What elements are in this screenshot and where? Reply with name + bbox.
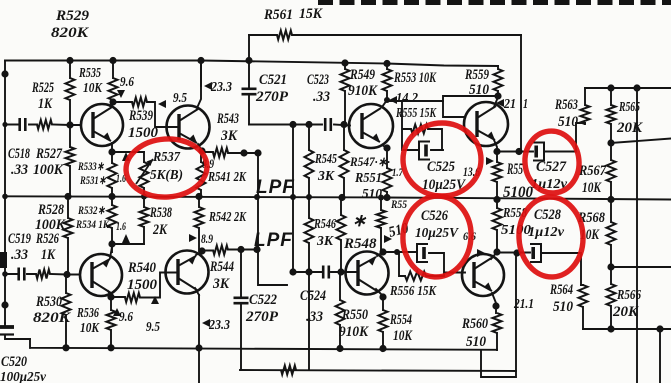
arrow testpoint 14.2: [389, 96, 397, 104]
arrow testpoint 21.1: [496, 99, 504, 107]
junction x=199 ground rail: [195, 344, 202, 351]
resistor R561 15K zigzag: [277, 31, 292, 40]
junction x=637 y=88: [633, 84, 640, 91]
junction Q6 collector node: [493, 248, 500, 255]
svg-text:R567: R567: [578, 163, 606, 179]
junction x=112 y=196: [108, 193, 115, 200]
resistor R547*: [340, 150, 349, 178]
svg-text:C525: C525: [427, 159, 455, 175]
resistor R553 10K: [383, 69, 392, 91]
svg-text:R532∗: R532∗: [77, 203, 105, 217]
resistor R525 1K: [66, 78, 75, 100]
arrow testpoint 23.3 upper: [204, 82, 212, 90]
resistor R526 1K horizontal: [36, 270, 50, 279]
svg-text:3K: 3K: [212, 276, 230, 292]
wire R557 column: [496, 152, 498, 200]
junction x=309 y=196: [306, 194, 312, 200]
junction Q1b base node: [63, 271, 70, 278]
svg-text:R546: R546: [313, 217, 336, 232]
resistor R539 1500: [132, 98, 147, 107]
svg-text:C519: C519: [8, 231, 31, 247]
svg-text:3K: 3K: [317, 169, 336, 184]
red circle around R537 5K(B): [124, 136, 209, 200]
wire column x=68 lower: [67, 197, 69, 275]
wire column x=113 upper: [112, 61, 114, 103]
svg-text:21: 21: [503, 96, 516, 111]
svg-text:100μ25v: 100μ25v: [0, 369, 47, 383]
wire top supply rail y=60: [5, 61, 498, 67]
svg-text:R553 10K: R553 10K: [393, 70, 436, 86]
capacitor C528 body: [530, 244, 541, 262]
junction x=340 ground rail: [336, 345, 343, 352]
resistor R545 3K: [305, 150, 314, 178]
wire C528 row: [497, 253, 581, 286]
wire left edge vertical x=5 lower: [4, 197, 6, 275]
resistor series input upper (R525 row): [37, 120, 52, 129]
wire column x=637: [636, 88, 638, 383]
wire Q1 collector lead: [110, 102, 113, 106]
wire R561 top link y=35: [249, 34, 521, 36]
resistor R554 10K: [379, 310, 388, 332]
svg-text:8.9: 8.9: [201, 231, 213, 246]
transistor Q5: [346, 252, 389, 295]
svg-text:R541 2K: R541 2K: [207, 170, 247, 185]
svg-text:LPF: LPF: [256, 177, 295, 198]
svg-text:C520: C520: [1, 354, 27, 370]
svg-text:1μ12v: 1μ12v: [528, 225, 565, 240]
svg-text:R528: R528: [37, 202, 64, 218]
wire column x=66 to ground rail: [65, 275, 67, 348]
resistor R567 10K: [607, 160, 616, 182]
svg-text:R549: R549: [349, 67, 375, 83]
wire column x=112 lower: [112, 197, 144, 253]
svg-text:23.3: 23.3: [210, 80, 232, 95]
junction x=66 ground rail: [62, 344, 69, 351]
wire R550 column: [339, 272, 341, 349]
wire right rail y=143: [611, 139, 671, 144]
svg-text:100K: 100K: [35, 217, 66, 233]
wire Q1 base row y=124: [5, 124, 81, 127]
wire R551 column: [386, 148, 388, 198]
wire Q4 emitter lead: [494, 140, 497, 152]
wire emitter row to C527: [497, 123, 585, 152]
junction x=497 y=199: [493, 196, 500, 203]
svg-text:1: 1: [523, 96, 528, 111]
wire left edge vertical x=5 upper: [4, 61, 6, 197]
junction x=517 y=253: [513, 249, 520, 256]
wire C522 column: [240, 250, 242, 371]
capacitor C526 body: [417, 244, 428, 262]
junction Q3 collector node: [384, 97, 390, 103]
junction Q6 emitter node: [492, 302, 499, 309]
dashed top border line: [318, 0, 671, 5]
resistor R538 2K: [140, 207, 149, 227]
svg-text:R543: R543: [216, 111, 239, 127]
junction rail x=70: [66, 57, 73, 64]
trimmer arrow R537: [136, 159, 153, 184]
junction x=309 y=272: [305, 268, 312, 275]
wire mid base row y=124: [249, 125, 350, 126]
junction x=611 y=88: [607, 84, 614, 91]
svg-text:270P: 270P: [245, 309, 279, 325]
wire mid rail y=196: [5, 196, 671, 199]
arrow testpoint at R552: [384, 235, 392, 243]
junction Q5 emitter node: [379, 248, 386, 255]
svg-text:C526: C526: [421, 208, 448, 224]
svg-text:20K: 20K: [612, 304, 639, 320]
junction x=293 y=124: [289, 121, 296, 128]
wire column x=144 upper (R537): [143, 152, 145, 197]
svg-text:5100: 5100: [501, 223, 531, 238]
svg-text:1K: 1K: [41, 247, 56, 263]
resistor R534 1K: [108, 205, 117, 228]
transistor Q4: [464, 102, 508, 146]
svg-text:R535: R535: [78, 66, 101, 81]
resistor R546 3K: [305, 218, 314, 243]
svg-text:R544: R544: [209, 259, 234, 275]
svg-text:C524: C524: [300, 288, 326, 304]
wire R542 top lead: [198, 197, 200, 208]
junction x=144 y=196: [141, 194, 147, 200]
wire C520 leads: [5, 323, 30, 339]
wire output box lower right: [481, 253, 516, 377]
wire column x=611: [610, 88, 612, 329]
wire Q4 collector lead: [494, 97, 498, 107]
resistor R544 3K horizontal: [213, 246, 228, 255]
capacitor C518 .33: [20, 118, 26, 131]
junction rail x=249: [245, 57, 252, 64]
svg-text:C528: C528: [534, 207, 561, 223]
wire C521 column: [248, 61, 250, 125]
wire column x=341 lower: [340, 197, 342, 272]
resistor R542 2K: [195, 207, 204, 228]
wire bottom feedback line y=370: [240, 370, 516, 371]
junction Q1b emitter node: [108, 240, 115, 247]
svg-text:23.3: 23.3: [208, 318, 230, 333]
wire R553 column: [386, 64, 388, 102]
svg-text:R554: R554: [389, 312, 412, 328]
svg-text:270P: 270P: [255, 89, 289, 105]
wire left edge vertical x=5 to C520: [4, 274, 6, 323]
svg-text:R529: R529: [55, 8, 90, 24]
resistor Q2 emitter (R541 2K): [197, 162, 206, 190]
junction x=519 emitter row: [515, 148, 522, 155]
svg-text:R536: R536: [76, 306, 99, 321]
svg-text:C521: C521: [259, 72, 287, 88]
svg-text:9.6: 9.6: [119, 310, 133, 325]
junction Q1b collector node: [107, 293, 114, 300]
junction x=383 ground rail: [379, 345, 386, 352]
wire R554 column: [382, 297, 384, 349]
wire column x=660 down: [659, 329, 661, 383]
junction Q1 emitter node: [108, 148, 115, 155]
capacitor C521 270P: [242, 89, 257, 94]
resistor R535 10K: [109, 78, 118, 100]
capacitor C523 .33: [325, 118, 331, 131]
wire x=199 continues off bottom: [198, 348, 200, 383]
junction x=387 y=197: [383, 194, 390, 201]
cut component left edge: [0, 252, 7, 268]
svg-text:R531∗: R531∗: [79, 173, 106, 187]
svg-text:C527: C527: [536, 159, 566, 175]
transistor Q1b: [80, 254, 122, 296]
arrow testpoint 9.5 lower: [151, 296, 159, 304]
junction x=381 y=197: [378, 195, 384, 201]
svg-text:100K: 100K: [33, 162, 64, 178]
wire column x=344 upper: [343, 125, 345, 198]
resistor R537 5K(B) trimmer: [140, 162, 149, 188]
resistor R540 1500: [125, 293, 140, 302]
svg-text:R525: R525: [31, 80, 54, 96]
svg-text:R564: R564: [549, 282, 573, 298]
svg-text:510: 510: [362, 187, 382, 202]
junction Q5 collector node: [379, 293, 386, 300]
svg-text:C518: C518: [8, 146, 30, 162]
svg-text:10μ25V: 10μ25V: [415, 225, 459, 240]
wire Q1 emitter lead: [111, 143, 113, 152]
svg-text:R539: R539: [128, 108, 153, 124]
wire Q6 collector lead: [491, 252, 497, 259]
resistor R550 910K: [336, 300, 345, 325]
arrow testpoint 1.6 upper: [122, 152, 130, 161]
wire R560 column: [496, 306, 497, 350]
svg-text:1500: 1500: [127, 277, 158, 293]
svg-text:10K: 10K: [393, 328, 413, 344]
wire column x=199 lower stub: [198, 228, 200, 251]
resistor R559 510: [494, 69, 503, 91]
wires R555/C525 block: [387, 101, 443, 150]
transistor Q2: [167, 106, 210, 149]
junction rail x=113: [109, 57, 116, 64]
junction x=5 y=274: [2, 271, 8, 277]
svg-text:9.5: 9.5: [146, 320, 160, 335]
capacitor C524 body: [323, 266, 329, 279]
svg-text:2K: 2K: [152, 222, 168, 238]
svg-text:9.5: 9.5: [173, 91, 187, 106]
wire right rail y=267: [611, 266, 671, 268]
svg-text:R563: R563: [554, 97, 578, 113]
arrow testpoint 9.6 upper: [117, 90, 125, 98]
wire Q2b collector to ground rail: [195, 288, 199, 348]
wire vertical stub x=249 R561 to rail: [248, 35, 250, 61]
svg-text:10K: 10K: [83, 81, 103, 96]
wire Q1 collector to Q2 base via R539: [113, 102, 179, 127]
svg-text:R527: R527: [35, 146, 62, 162]
svg-text:∗: ∗: [352, 211, 367, 230]
arrow testpoint 9.5 upper: [158, 100, 166, 108]
capacitor C519 .33: [19, 268, 25, 281]
resistor R560 510: [493, 313, 502, 333]
svg-text:R560: R560: [461, 316, 488, 332]
svg-text:14.2: 14.2: [396, 90, 418, 105]
junction x=257 y=196: [254, 194, 260, 200]
wire Q1b collector lead: [108, 291, 111, 297]
junction x=199 y=196: [195, 193, 202, 200]
junction x=342 y=197: [338, 194, 345, 201]
resistor R552 510: [377, 210, 386, 228]
svg-text:R55: R55: [506, 161, 523, 178]
junction R559 bottom / Q4 collector: [494, 92, 501, 99]
svg-text:510: 510: [558, 114, 578, 130]
svg-text:R534 1K: R534 1K: [75, 217, 110, 231]
wire Q1b emitter lead: [110, 247, 112, 258]
wires C526/R556 block: [383, 252, 465, 276]
svg-text:R538: R538: [149, 205, 172, 221]
red circle around C525: [403, 123, 481, 196]
svg-text:R548: R548: [343, 236, 377, 252]
junction x=293 y=272: [289, 268, 296, 275]
svg-text:1.6: 1.6: [116, 219, 126, 233]
resistor R564 510: [579, 285, 588, 307]
svg-text:.33: .33: [306, 309, 323, 325]
resistor R549 910K: [341, 69, 350, 91]
svg-text:R550: R550: [341, 307, 368, 323]
resistor R555 15K zigzag: [411, 125, 428, 134]
svg-text:R540: R540: [127, 260, 156, 276]
svg-text:10K: 10K: [582, 180, 602, 196]
wire Q2 collector to rail: [197, 61, 201, 109]
junction x=258 y=153: [254, 149, 261, 156]
svg-text:R55: R55: [390, 197, 407, 211]
svg-text:R545: R545: [314, 152, 337, 167]
svg-text:R561: R561: [263, 7, 293, 23]
capacitor C525 body: [419, 142, 430, 160]
arrow testpoint 9.6 lower: [113, 308, 121, 316]
wire Q4 base feed: [443, 96, 498, 117]
svg-text:910K: 910K: [348, 83, 378, 99]
svg-text:C522: C522: [249, 292, 277, 308]
junction Q2 emitter node: [198, 147, 205, 154]
wire Q2 emitter lead: [198, 144, 202, 151]
wire emitter node to R537 (under red circle): [112, 151, 144, 153]
junction Q1 collector node: [109, 98, 116, 105]
resistor bottom feedback zigzag: [281, 366, 296, 375]
wire lower mid base row y=272: [293, 271, 358, 273]
svg-text:10K: 10K: [80, 321, 100, 336]
svg-text:1K: 1K: [38, 96, 53, 112]
wire column x=201 upper: [200, 151, 202, 197]
svg-text:R547·∗·: R547·∗·: [349, 154, 390, 169]
wire lower emitter rail y=347: [30, 339, 497, 350]
svg-text:R526: R526: [35, 231, 59, 247]
wire column x=144 lower: [143, 197, 145, 245]
junction Q3 emitter node: [383, 144, 390, 151]
svg-text:R530: R530: [35, 294, 62, 310]
junction x=111 ground rail: [107, 344, 114, 351]
svg-text:5K(B): 5K(B): [150, 168, 183, 183]
wire vertical x=521 from R561 to emitter row: [520, 35, 522, 151]
resistor R528 100K: [64, 218, 73, 238]
wire Q3 collector lead: [382, 100, 387, 107]
svg-text:510: 510: [553, 299, 573, 315]
resistor R543 3K horizontal: [213, 148, 228, 157]
resistor R548*: [337, 215, 346, 240]
junction Q4 emitter node: [493, 148, 500, 155]
junction x=309 y=124: [305, 121, 312, 128]
resistor R527 100K: [66, 147, 75, 166]
svg-text:R551: R551: [354, 171, 382, 186]
wire emitter row y=249 lower: [203, 250, 257, 251]
junction x=397 y=252: [394, 249, 400, 255]
junction rail x=345: [341, 59, 348, 66]
resistor R568 10K: [607, 222, 616, 245]
resistor R551 510: [383, 168, 392, 192]
wire column x=293: [292, 125, 294, 273]
junction left rail x=5 y=74: [1, 70, 8, 77]
wire R564 leads: [581, 285, 583, 329]
resistor R536 10K: [107, 310, 116, 330]
junction x=611 y=329: [607, 325, 614, 332]
svg-text:510: 510: [466, 334, 486, 350]
svg-text:3K: 3K: [220, 128, 238, 144]
svg-text:R566: R566: [616, 288, 641, 303]
arrow testpoint 1.6 lower: [122, 234, 130, 243]
resistor R531 (Q1 emitter): [108, 163, 117, 188]
junction rail x=201: [197, 57, 204, 64]
resistor R565 20K: [607, 105, 616, 124]
junction x=660 y=329: [656, 325, 663, 332]
wire column x=309: [308, 125, 310, 371]
capacitor C520 plates: [0, 325, 14, 329]
svg-text:R556 15K: R556 15K: [389, 283, 437, 298]
wire Q5 collector lead: [376, 289, 383, 297]
svg-text:9.6: 9.6: [120, 75, 134, 90]
svg-text:C523: C523: [307, 72, 329, 88]
svg-text:820K: 820K: [33, 310, 71, 326]
svg-text:.33: .33: [313, 89, 330, 105]
junction Q1 base node: [66, 121, 73, 128]
red circle around C527: [522, 128, 582, 195]
junction x=341 y=272: [337, 268, 344, 275]
wire Q6 emitter lead: [492, 293, 496, 303]
junction x=5 y=124: [2, 122, 7, 127]
svg-text:5100: 5100: [503, 184, 533, 201]
wire R549 column: [344, 63, 346, 125]
arrow testpoint 8.9 lower: [189, 234, 197, 242]
svg-text:820K: 820K: [51, 25, 89, 41]
wire R563 column: [584, 88, 586, 124]
svg-text:R542 2K: R542 2K: [208, 210, 247, 225]
junction x=68 y=196: [64, 193, 71, 200]
junction x=244 y=153: [240, 149, 247, 156]
arrow testpoint at R557: [486, 157, 494, 165]
wire Q2b emitter lead: [196, 251, 202, 255]
svg-text:3K: 3K: [316, 234, 335, 249]
svg-text:510: 510: [469, 82, 489, 98]
svg-text:20K: 20K: [616, 120, 643, 136]
junction x=293 y=196: [290, 194, 296, 200]
junction x=241 y=249: [237, 246, 244, 253]
capacitor C527 body: [533, 143, 544, 161]
resistor R556 15K zigzag: [405, 272, 426, 281]
wire Q3 emitter lead: [382, 145, 387, 148]
arrow testpoint 6.6: [477, 249, 485, 257]
junction rail x=387: [383, 60, 390, 67]
junction x=5 y=196: [2, 194, 8, 200]
junction x=611 y=143: [607, 139, 614, 146]
wire Q1b base row y=274: [5, 273, 80, 276]
transistor Q1: [81, 104, 123, 146]
junction x=611 y=267: [607, 263, 614, 270]
resistor R566 20K: [607, 284, 616, 306]
wire R540 row to Q2b base: [111, 273, 178, 298]
junction x=5 y=305: [1, 301, 8, 308]
wire emitter row y=153: [203, 152, 258, 153]
transistor Q6: [462, 254, 504, 296]
svg-text:R559: R559: [464, 67, 489, 83]
wire R559 column: [497, 66, 499, 96]
svg-text:R533∗: R533∗: [77, 159, 104, 173]
